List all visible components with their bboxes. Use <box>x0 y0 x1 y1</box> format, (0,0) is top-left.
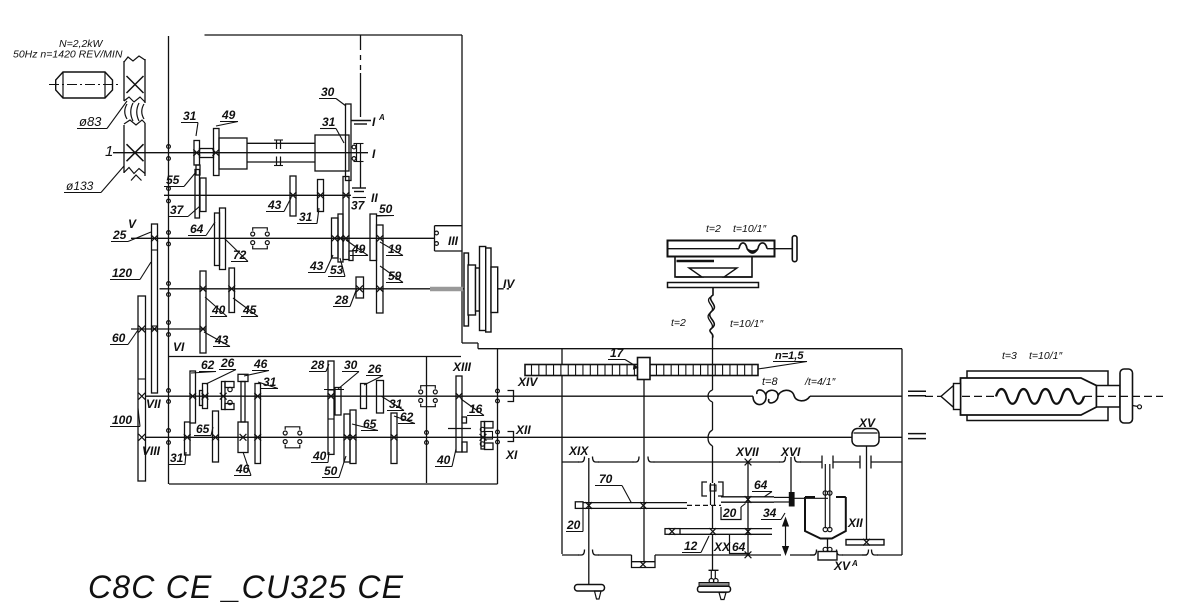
svg-text:50: 50 <box>324 464 338 478</box>
svg-text:37: 37 <box>351 199 366 213</box>
svg-text:49: 49 <box>221 108 236 122</box>
svg-text:37: 37 <box>170 203 185 217</box>
svg-text:/t=4/1″: /t=4/1″ <box>804 376 837 388</box>
svg-text:XV: XV <box>833 559 851 573</box>
svg-text:65: 65 <box>196 422 210 436</box>
svg-text:26: 26 <box>220 356 235 370</box>
svg-text:XVI: XVI <box>780 445 801 459</box>
svg-text:t=10/1″: t=10/1″ <box>733 223 767 235</box>
svg-text:64: 64 <box>190 222 204 236</box>
svg-text:VIII: VIII <box>142 444 161 458</box>
svg-text:XV: XV <box>858 416 876 430</box>
svg-text:XX: XX <box>713 540 731 554</box>
svg-text:ø83: ø83 <box>79 114 102 129</box>
svg-text:1: 1 <box>105 143 113 160</box>
svg-text:55: 55 <box>166 173 180 187</box>
svg-text:50Hz n=1420 REV/MIN: 50Hz n=1420 REV/MIN <box>13 49 123 61</box>
svg-text:t=2: t=2 <box>671 317 686 329</box>
svg-text:C8C CE _CU325 CE: C8C CE _CU325 CE <box>88 569 404 605</box>
svg-text:40: 40 <box>436 453 451 467</box>
svg-text:II: II <box>371 191 378 205</box>
svg-text:XII: XII <box>847 516 863 530</box>
svg-text:XIII: XIII <box>452 360 472 374</box>
svg-text:20: 20 <box>722 506 737 520</box>
svg-text:t=10/1″: t=10/1″ <box>730 318 764 330</box>
svg-text:72: 72 <box>233 248 247 262</box>
svg-text:12: 12 <box>684 539 698 553</box>
svg-text:31: 31 <box>183 109 197 123</box>
svg-text:VII: VII <box>146 397 161 411</box>
svg-text:28: 28 <box>310 358 325 372</box>
svg-text:60: 60 <box>112 331 126 345</box>
svg-text:26: 26 <box>367 362 382 376</box>
svg-text:XI: XI <box>505 448 518 462</box>
svg-text:A: A <box>378 113 385 122</box>
svg-text:31: 31 <box>170 451 184 465</box>
svg-text:100: 100 <box>112 413 132 427</box>
svg-text:30: 30 <box>344 358 358 372</box>
svg-text:t=2: t=2 <box>706 223 721 235</box>
svg-text:40: 40 <box>211 303 226 317</box>
svg-text:IV: IV <box>503 277 515 291</box>
svg-text:50: 50 <box>379 202 393 216</box>
svg-text:43: 43 <box>309 259 324 273</box>
svg-text:34: 34 <box>763 506 777 520</box>
svg-text:43: 43 <box>267 198 282 212</box>
svg-text:120: 120 <box>112 266 132 280</box>
svg-text:t=10/1″: t=10/1″ <box>1029 350 1063 362</box>
svg-text:28: 28 <box>334 293 349 307</box>
svg-text:70: 70 <box>599 472 613 486</box>
svg-text:III: III <box>448 234 459 248</box>
svg-text:40: 40 <box>312 449 327 463</box>
svg-text:t=8: t=8 <box>762 376 778 388</box>
svg-text:62: 62 <box>201 358 215 372</box>
svg-text:VI: VI <box>173 340 185 354</box>
svg-text:30: 30 <box>321 85 335 99</box>
svg-text:V: V <box>128 217 137 231</box>
svg-text:31: 31 <box>299 210 313 224</box>
svg-text:64: 64 <box>732 540 746 554</box>
svg-text:XVII: XVII <box>735 445 759 459</box>
svg-text:31: 31 <box>322 115 336 129</box>
svg-text:A: A <box>851 559 858 568</box>
svg-text:XIX: XIX <box>568 444 589 458</box>
svg-text:n=1,5: n=1,5 <box>775 350 804 362</box>
svg-text:20: 20 <box>566 518 581 532</box>
svg-text:25: 25 <box>112 228 127 242</box>
svg-text:t=3: t=3 <box>1002 350 1017 362</box>
svg-text:ø133: ø133 <box>66 179 94 193</box>
svg-text:XIV: XIV <box>517 375 538 389</box>
svg-text:17: 17 <box>610 346 625 360</box>
svg-text:46: 46 <box>253 357 268 371</box>
svg-text:XII: XII <box>515 423 531 437</box>
svg-text:64: 64 <box>754 478 768 492</box>
